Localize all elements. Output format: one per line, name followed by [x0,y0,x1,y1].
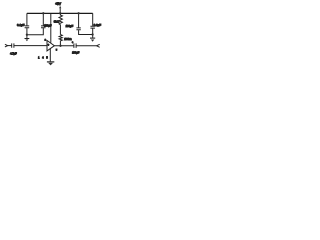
capacitor C1 plates [25,26,30,28]
svg-text:3kΩ: 3kΩ [54,19,60,23]
ground C4 [90,37,95,39]
wire output [54,45,73,47]
wire C2 bottom to shared ground [27,28,43,35]
resistor R1 3kOhm [59,13,62,34]
svg-text:+5V: +5V [55,2,62,6]
svg-text:100kΩ: 100kΩ [64,38,71,41]
capacitor C6 output plates [74,43,76,48]
input connector J1 [5,44,8,47]
op-amp U1 [47,41,54,51]
node C4 ground line junction [91,33,93,35]
wire to op-amp input [14,45,47,47]
capacitor C4 plates [90,26,95,28]
wire C1 bottom [26,28,28,38]
ground op-amp [47,61,54,63]
wire op-amp ground pin [49,49,51,62]
wire +5V top rail [27,12,93,14]
capacitor C2 100uF lead [42,13,44,25]
node shared ground junction [26,34,28,36]
capacitor C5 input plates [12,43,14,47]
ground left [25,38,30,40]
resistor R2 100kOhm [59,35,62,46]
wire C4 bottom [92,29,94,38]
wire op-amp supply [50,13,52,43]
capacitor C3 100pF lead [78,13,80,27]
node C3 rail junction [77,12,79,14]
node C2 top junction [42,12,44,14]
svg-text:0.1µF: 0.1µF [17,23,25,27]
power arrow +5V [59,8,61,13]
capacitor C4 0.1uF right bypass lead [92,13,94,26]
wire output right [76,45,96,47]
capacitor C2 plates [41,26,46,28]
svg-text:100pF: 100pF [66,24,74,28]
node output junction [59,45,61,47]
svg-text:4.7µF: 4.7µF [10,52,17,55]
capacitor C1 0.1uF left lead [26,13,28,25]
svg-text:0.1µF: 0.1µF [94,23,102,27]
output connector J2 [97,44,100,47]
wire C3 bottom to bypass ground line [79,30,93,34]
node +5V rail junction [59,12,61,14]
capacitor C3 plates [76,28,80,30]
wire input [8,45,12,47]
svg-text:100µF: 100µF [72,52,80,55]
